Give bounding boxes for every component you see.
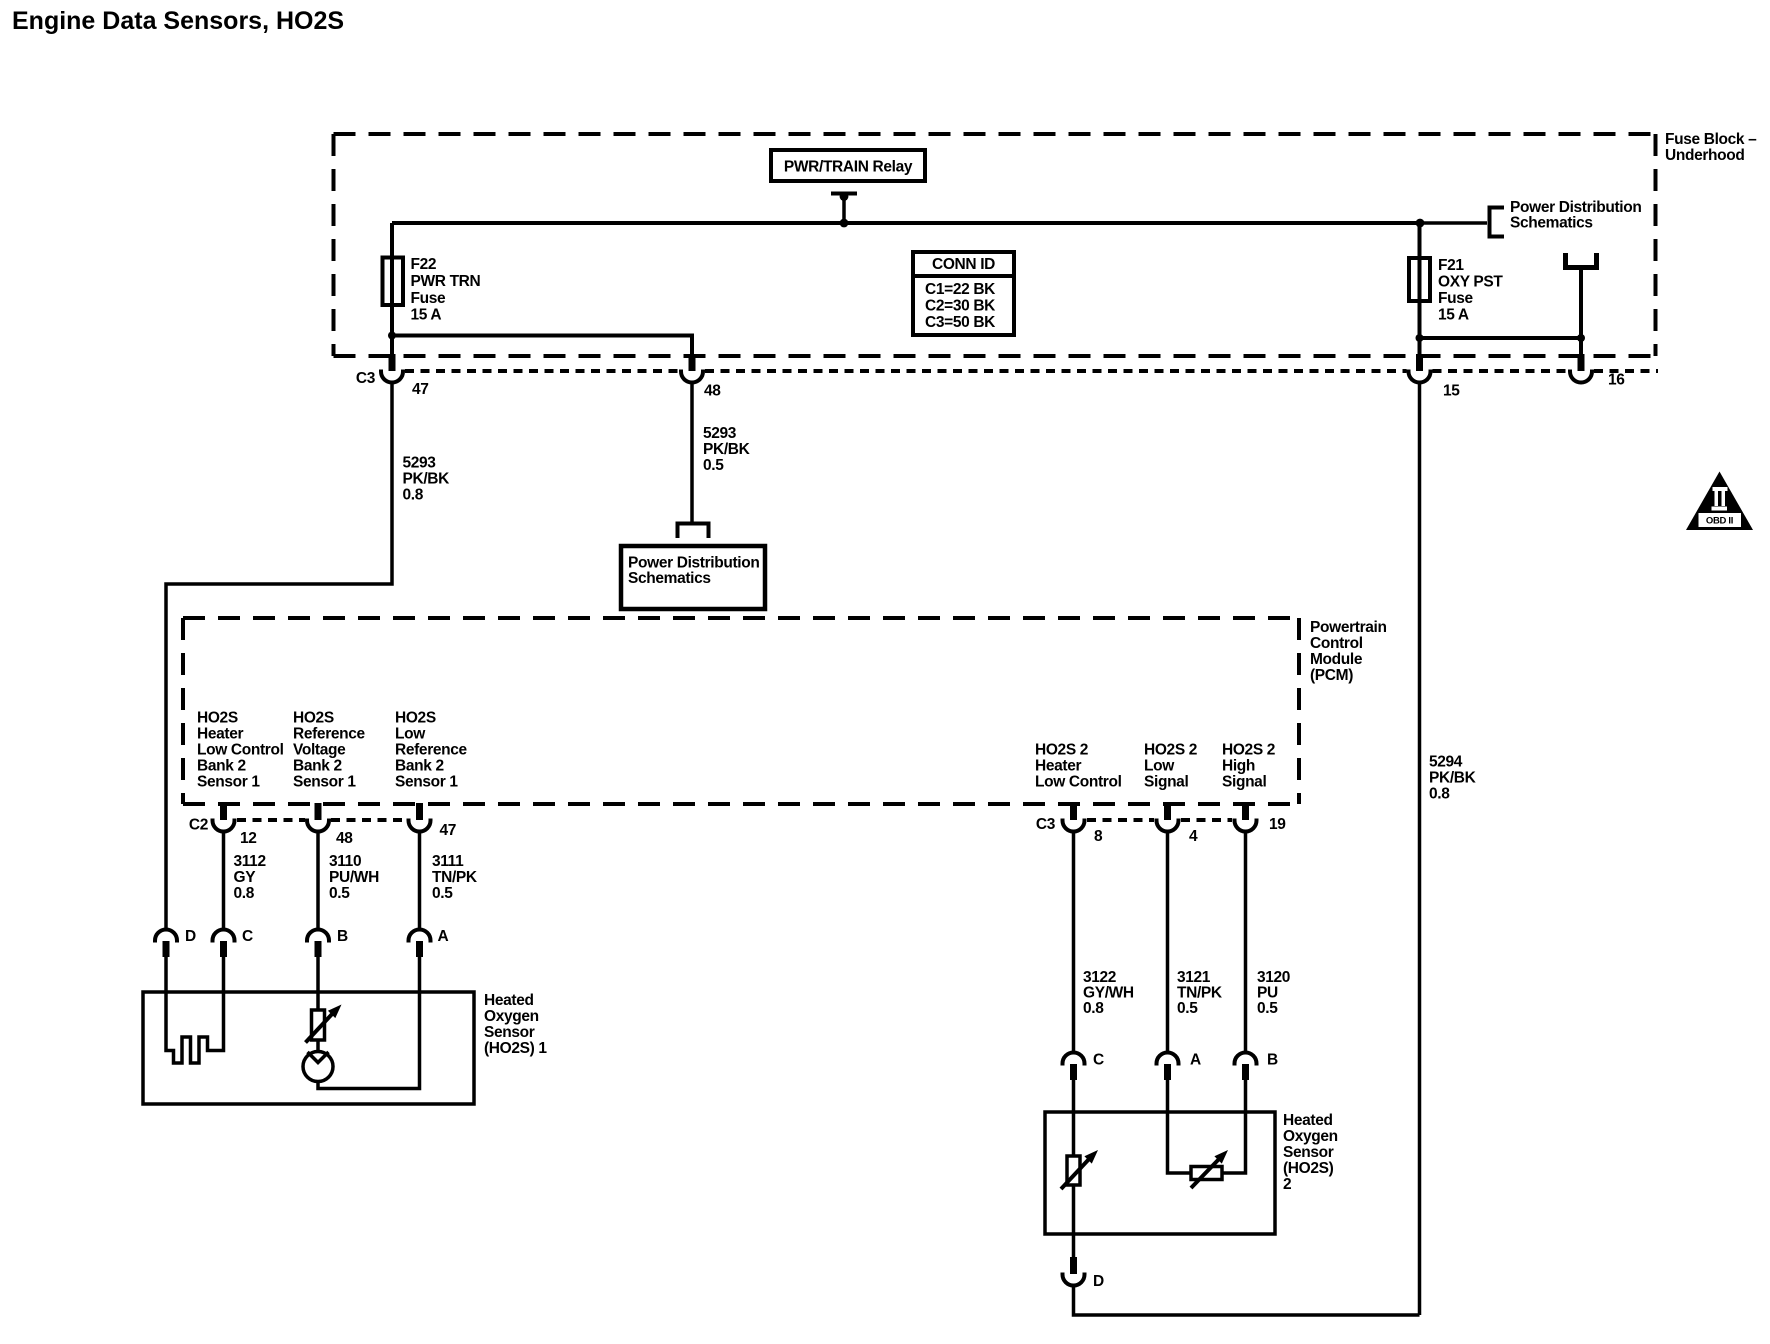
svg-text:Oxygen: Oxygen xyxy=(484,1008,539,1025)
svg-text:0.5: 0.5 xyxy=(432,885,453,902)
svg-text:C3=50 BK: C3=50 BK xyxy=(925,314,996,331)
wire resistor to connector D xyxy=(1072,1185,1076,1257)
wire 3110 xyxy=(316,832,320,930)
svg-text:5294: 5294 xyxy=(1429,754,1463,771)
svg-text:3120: 3120 xyxy=(1257,969,1290,986)
svg-text:C1=22 BK: C1=22 BK xyxy=(925,281,996,298)
svg-text:5293: 5293 xyxy=(403,455,437,472)
connector C3 pin 4 xyxy=(1157,803,1179,832)
OBD II symbol xyxy=(1686,472,1753,531)
harness dotted line C3 xyxy=(1087,818,1232,822)
svg-text:Powertrain: Powertrain xyxy=(1310,619,1387,636)
conn id table xyxy=(913,252,1014,335)
power distribution schematics tap bracket xyxy=(1490,208,1505,237)
svg-text:Signal: Signal xyxy=(1144,774,1188,791)
svg-text:C3: C3 xyxy=(1036,816,1056,833)
sense variable resistor HO2S2 xyxy=(1191,1167,1222,1180)
svg-text:Reference: Reference xyxy=(395,742,468,759)
svg-text:A: A xyxy=(1190,1052,1201,1069)
svg-text:0.5: 0.5 xyxy=(703,457,724,474)
junction xyxy=(1416,219,1425,228)
svg-text:Power Distribution: Power Distribution xyxy=(628,555,759,572)
svg-text:Reference: Reference xyxy=(293,726,366,743)
svg-text:HO2S 2: HO2S 2 xyxy=(1144,742,1197,759)
svg-text:Fuse Block –: Fuse Block – xyxy=(1665,131,1757,148)
svg-text:(HO2S) 1: (HO2S) 1 xyxy=(484,1040,547,1057)
wire 5294 (pin 15 down the right side) xyxy=(1418,383,1422,1316)
fuse block underhood (dashed enclosure) xyxy=(334,134,1656,356)
svg-text:47: 47 xyxy=(440,822,457,839)
svg-text:15: 15 xyxy=(1443,383,1460,400)
svg-text:Oxygen: Oxygen xyxy=(1283,1128,1338,1145)
wire: branch to pin 48 xyxy=(392,336,692,356)
connector pin 15 xyxy=(1409,354,1431,383)
svg-text:GY: GY xyxy=(234,869,257,886)
connector D (HO2S2 bottom) xyxy=(1063,1257,1085,1286)
fuse F21 xyxy=(1409,258,1430,301)
heated oxygen sensor 1 box xyxy=(143,992,474,1104)
svg-text:PK/BK: PK/BK xyxy=(403,471,451,488)
svg-text:0.8: 0.8 xyxy=(1429,786,1450,803)
wire: bus to power distribution tap xyxy=(1420,221,1487,225)
svg-text:3110: 3110 xyxy=(329,853,361,870)
svg-text:Low: Low xyxy=(395,726,426,743)
svg-text:B: B xyxy=(337,928,348,945)
wire 3122 xyxy=(1072,832,1076,1053)
in-line tap stub (to pin 16) xyxy=(1566,253,1597,268)
junction xyxy=(1416,334,1424,342)
svg-text:OXY PST: OXY PST xyxy=(1438,274,1503,291)
svg-text:C2: C2 xyxy=(189,817,208,834)
svg-text:PU/WH: PU/WH xyxy=(329,869,379,886)
svg-text:Heater: Heater xyxy=(197,726,243,743)
wire: main bus xyxy=(392,221,1420,225)
svg-text:HO2S: HO2S xyxy=(293,710,334,727)
wire xyxy=(316,1040,320,1052)
relay pin symbol xyxy=(831,192,857,196)
svg-text:48: 48 xyxy=(336,830,353,847)
svg-text:PK/BK: PK/BK xyxy=(1429,770,1477,787)
svg-text:16: 16 xyxy=(1608,372,1625,389)
svg-text:CONN ID: CONN ID xyxy=(932,256,995,273)
svg-text:TN/PK: TN/PK xyxy=(432,869,478,886)
svg-text:HO2S 2: HO2S 2 xyxy=(1035,742,1088,759)
power distribution schematics box xyxy=(621,546,765,609)
svg-text:HO2S: HO2S xyxy=(197,710,238,727)
svg-text:C: C xyxy=(242,928,253,945)
svg-text:Power Distribution: Power Distribution xyxy=(1510,199,1641,216)
svg-text:0.5: 0.5 xyxy=(1177,1000,1198,1017)
connector D (HO2S1) xyxy=(155,930,177,958)
svg-text:Fuse: Fuse xyxy=(411,290,447,307)
svg-text:3121: 3121 xyxy=(1177,969,1211,986)
svg-text:B: B xyxy=(1267,1052,1278,1069)
svg-text:PWR/TRAIN Relay: PWR/TRAIN Relay xyxy=(784,159,913,176)
svg-text:Low: Low xyxy=(1144,758,1175,775)
svg-text:3122: 3122 xyxy=(1083,969,1116,986)
wire cell to A xyxy=(318,955,420,1089)
wire resistor to B xyxy=(1222,1079,1246,1174)
svg-text:D: D xyxy=(1093,1273,1104,1290)
svg-text:A: A xyxy=(438,928,449,945)
wire 3120 xyxy=(1244,832,1248,1053)
svg-text:47: 47 xyxy=(412,381,429,398)
wire B into sensor xyxy=(316,955,320,1010)
svg-text:5293: 5293 xyxy=(703,425,737,442)
svg-text:Sensor: Sensor xyxy=(484,1024,535,1041)
connector C3 pin 47 xyxy=(381,354,403,383)
wire: drop to F21 xyxy=(1418,223,1422,355)
svg-text:C2=30 BK: C2=30 BK xyxy=(925,298,996,315)
wire 3121 xyxy=(1166,832,1170,1053)
connector C3 pin 8 xyxy=(1063,803,1085,832)
svg-text:0.5: 0.5 xyxy=(329,885,350,902)
svg-text:Heater: Heater xyxy=(1035,758,1081,775)
connector pin 16 xyxy=(1570,354,1592,383)
svg-text:F21: F21 xyxy=(1438,257,1464,274)
connector C2 pin 48 xyxy=(307,803,329,832)
connector B (HO2S2) xyxy=(1235,1053,1257,1081)
connector C2 pin 12 xyxy=(213,803,235,832)
svg-text:Engine Data Sensors, HO2S: Engine Data Sensors, HO2S xyxy=(12,7,344,35)
heater variable resistor HO2S2 xyxy=(1067,1156,1080,1185)
svg-text:D: D xyxy=(185,928,196,945)
heated oxygen sensor 2 box xyxy=(1045,1112,1275,1234)
svg-text:OBD II: OBD II xyxy=(1706,516,1733,527)
relay PWR/TRAIN label box xyxy=(771,150,925,181)
connector A (HO2S1) xyxy=(409,930,431,958)
junction xyxy=(1577,334,1585,342)
svg-text:Sensor 1: Sensor 1 xyxy=(197,774,260,791)
svg-text:High: High xyxy=(1222,758,1255,775)
connector C (HO2S2) xyxy=(1063,1053,1085,1081)
svg-text:Sensor 1: Sensor 1 xyxy=(395,774,458,791)
svg-text:Bank 2: Bank 2 xyxy=(395,758,444,775)
wire 5293 (pin 48 branch) xyxy=(690,383,694,524)
svg-text:2: 2 xyxy=(1283,1176,1291,1193)
svg-text:15 A: 15 A xyxy=(1438,307,1469,324)
wire: F21 to pin 16 link xyxy=(1420,338,1582,355)
svg-text:Low Control: Low Control xyxy=(1035,774,1122,791)
svg-text:HO2S: HO2S xyxy=(395,710,436,727)
svg-text:Heated: Heated xyxy=(484,992,534,1009)
svg-text:48: 48 xyxy=(704,383,721,400)
svg-text:3112: 3112 xyxy=(234,853,266,870)
svg-text:Signal: Signal xyxy=(1222,774,1266,791)
svg-text:Sensor: Sensor xyxy=(1283,1144,1334,1161)
wire 3112 xyxy=(222,832,226,930)
svg-text:(PCM): (PCM) xyxy=(1310,667,1353,684)
svg-text:PWR TRN: PWR TRN xyxy=(411,273,481,290)
connector C3 pin 19 xyxy=(1235,803,1257,832)
svg-text:Underhood: Underhood xyxy=(1665,147,1745,164)
svg-text:0.5: 0.5 xyxy=(1257,1000,1278,1017)
svg-text:HO2S 2: HO2S 2 xyxy=(1222,742,1275,759)
wire D to 5294 xyxy=(1074,1286,1420,1316)
svg-text:Schematics: Schematics xyxy=(1510,215,1593,232)
variable resistor (sensor element) xyxy=(312,1010,325,1040)
wire 3111 xyxy=(418,832,422,930)
svg-text:0.8: 0.8 xyxy=(234,885,255,902)
svg-text:TN/PK: TN/PK xyxy=(1177,985,1223,1002)
svg-text:Bank 2: Bank 2 xyxy=(293,758,342,775)
connector A (HO2S2) xyxy=(1157,1053,1179,1081)
svg-text:(HO2S): (HO2S) xyxy=(1283,1160,1334,1177)
svg-text:19: 19 xyxy=(1269,816,1286,833)
svg-text:8: 8 xyxy=(1094,828,1103,845)
wire C into sensor 2 xyxy=(1072,1079,1076,1157)
harness dotted line C2 xyxy=(237,818,406,822)
svg-text:Schematics: Schematics xyxy=(628,570,711,587)
svg-text:Control: Control xyxy=(1310,635,1363,652)
svg-text:3111: 3111 xyxy=(432,853,464,870)
svg-text:15 A: 15 A xyxy=(411,307,442,324)
svg-text:Voltage: Voltage xyxy=(293,742,346,759)
wire xyxy=(1579,267,1583,338)
svg-text:Fuse: Fuse xyxy=(1438,290,1474,307)
svg-text:Sensor 1: Sensor 1 xyxy=(293,774,356,791)
connector B (HO2S1) xyxy=(307,930,329,958)
connector C2 pin 47 xyxy=(409,803,431,832)
page tap bracket to power distribution xyxy=(678,524,709,539)
svg-text:F22: F22 xyxy=(411,256,437,273)
wire 5293 (pin 47 to HO2S1 D) xyxy=(166,383,392,930)
svg-text:Module: Module xyxy=(1310,651,1363,668)
svg-text:0.8: 0.8 xyxy=(1083,1000,1104,1017)
wire: drop to F22 xyxy=(390,223,394,355)
connector pin 48 xyxy=(681,354,703,383)
svg-text:PU: PU xyxy=(1257,985,1278,1002)
wire A into sensor 2 xyxy=(1168,1079,1192,1174)
svg-text:4: 4 xyxy=(1189,828,1198,845)
fuse F22 xyxy=(383,258,404,306)
powertrain control module (dashed enclosure) xyxy=(183,618,1299,804)
svg-text:PK/BK: PK/BK xyxy=(703,441,751,458)
sensor cell (circle with notch) xyxy=(303,1052,333,1082)
junction xyxy=(388,332,396,340)
svg-text:GY/WH: GY/WH xyxy=(1083,985,1134,1002)
svg-text:Low Control: Low Control xyxy=(197,742,284,759)
connector C (HO2S1) xyxy=(213,930,235,958)
harness dotted line xyxy=(405,369,1658,373)
svg-text:12: 12 xyxy=(240,830,257,847)
svg-text:Bank 2: Bank 2 xyxy=(197,758,246,775)
heater element HO2S1 xyxy=(166,955,224,1063)
svg-text:0.8: 0.8 xyxy=(403,487,424,504)
svg-text:Heated: Heated xyxy=(1283,1112,1333,1129)
svg-text:C: C xyxy=(1093,1052,1104,1069)
svg-text:C3: C3 xyxy=(356,370,376,387)
